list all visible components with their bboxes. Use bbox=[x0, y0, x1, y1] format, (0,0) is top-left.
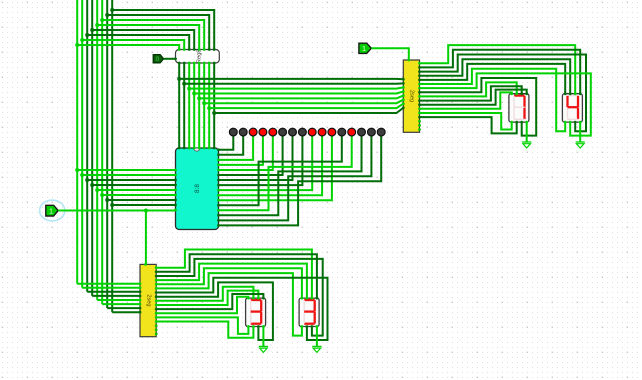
wire V7 to 2seg U4 input 7 bbox=[107, 307, 140, 309]
wire V5 to Reg8 top pin 5 bbox=[97, 25, 199, 50]
wire V1 to Reg8 top pin 1 bbox=[77, 45, 179, 50]
wire U2 out bit15 to LED D16 bbox=[219, 136, 382, 225]
wire U4 out3 to display bbox=[156, 264, 307, 299]
wire U2 out bit11 to LED D12 bbox=[219, 136, 342, 205]
wire to ground bbox=[316, 327, 318, 347]
wire to ground bbox=[579, 122, 581, 142]
wire Reg8 out bit7 to U2 top pin 8 bbox=[213, 63, 215, 148]
wire V2 to U2 left pin 2 bbox=[82, 174, 175, 176]
wire to ground bbox=[526, 122, 528, 142]
wire U2 out bit3 to LED D4 bbox=[219, 136, 263, 165]
wire U4 out11 to display bbox=[156, 297, 248, 313]
wire U4 out6 to display bbox=[156, 278, 327, 340]
wire Reg8 out bit4 to U2 top pin 5 bbox=[198, 63, 200, 148]
LED D7 (off) bbox=[289, 128, 297, 136]
svg-text:2seg: 2seg bbox=[145, 294, 151, 306]
LED D3 (on) bbox=[249, 128, 257, 136]
input pin P1 (bottom left, value 1) with selection halo bbox=[40, 200, 65, 221]
constant 0 bbox=[153, 55, 163, 63]
wire U4 out8 to display bbox=[156, 287, 253, 301]
wire Reg8 out bit6 to U2 top pin 7 bbox=[208, 63, 210, 148]
wire U2 out bit10 to LED D11 bbox=[219, 136, 332, 200]
wire vertical V2 x=82 bbox=[81, 0, 83, 288]
wire V8 to Reg8 top pin 8 bbox=[112, 10, 214, 50]
wire U3 out12 to display bottom bbox=[420, 113, 512, 130]
wire U3 out6 to display bbox=[420, 73, 591, 135]
svg-text:0: 0 bbox=[156, 56, 160, 63]
wire Reg8 out bit4 to 2seg U3 input 5 bbox=[199, 96, 403, 99]
wire vertical V1 x=77 bbox=[76, 0, 78, 284]
wire Reg8 out bit2 to U2 top pin 3 bbox=[188, 63, 190, 148]
svg-text:Reg8: Reg8 bbox=[197, 49, 203, 63]
wire Reg8 out bit2 to 2seg U3 input 3 bbox=[189, 87, 403, 88]
wire Reg8 out bit5 to 2seg U3 input 6 bbox=[204, 100, 403, 104]
wire V6 to Reg8 top pin 6 bbox=[102, 20, 204, 50]
LED D9 (on) bbox=[308, 128, 316, 136]
wire V3 to Reg8 top pin 3 bbox=[87, 35, 189, 50]
multiplier U2 (8x8) bbox=[176, 148, 219, 230]
wire V8 to 2seg U4 input 8 bbox=[112, 311, 140, 313]
wire V8 to U2 left pin 8 bbox=[112, 204, 175, 206]
wire V3 to 2seg U4 input 3 bbox=[87, 291, 140, 293]
wire U2 out bit1 to LED D2 bbox=[219, 136, 244, 155]
wire vertical V6 x=102 bbox=[101, 0, 103, 304]
wire U4 out13 to display bottom bbox=[156, 322, 253, 338]
wire V6 to U2 left pin 6 bbox=[102, 194, 175, 196]
wire V4 to Reg8 top pin 4 bbox=[92, 30, 194, 50]
ground GND under DS1 digit 7 bbox=[522, 141, 531, 143]
wire U3 out0 to display bbox=[420, 45, 576, 94]
LED D15 (off) bbox=[368, 128, 376, 136]
wire Reg8 out bit1 to 2seg U3 input 2 bbox=[184, 82, 403, 84]
wire V4 to 2seg U4 input 4 bbox=[92, 295, 140, 297]
wire V2 to 2seg U4 input 2 bbox=[82, 287, 140, 289]
LED D4 (on) bbox=[259, 128, 267, 136]
wire V1 to 2seg U4 input 1 bbox=[77, 283, 140, 285]
wire U3 out1 to display bbox=[420, 50, 581, 94]
wire Reg8 out bit0 to 2seg U3 input 1 bbox=[179, 78, 403, 80]
wire U3 out8 to display bbox=[420, 82, 517, 96]
wire V6 to 2seg U4 input 6 bbox=[102, 303, 140, 305]
LED D14 (off) bbox=[358, 128, 366, 136]
subcircuit 2seg U4 bbox=[140, 264, 156, 336]
wire Reg8 out bit0 to U2 top pin 1 bbox=[178, 63, 180, 148]
wire vertical V4 x=92 bbox=[91, 0, 93, 296]
wire U2 out bit0 to LED D1 bbox=[219, 136, 234, 150]
svg-text:1: 1 bbox=[362, 44, 366, 53]
LED D2 (off) bbox=[239, 128, 247, 136]
wire U4 out7 to display bbox=[156, 282, 273, 340]
wire Reg8 out bit3 to 2seg U3 input 4 bbox=[194, 92, 403, 94]
wire U3 out5 to display bbox=[420, 69, 566, 132]
wire U4 out0 to display bbox=[156, 250, 312, 299]
LED D5 (on) bbox=[269, 128, 277, 136]
7-segment display DS3 digit 3 bbox=[246, 298, 266, 326]
LED D1 (off) bbox=[229, 128, 237, 136]
wire vertical V8 x=112 bbox=[111, 0, 113, 312]
wire V7 to U2 left pin 7 bbox=[107, 199, 175, 201]
wire U3 out7 to display bbox=[420, 78, 537, 136]
wire U3 out4 to display bbox=[420, 64, 566, 94]
LED D11 (on) bbox=[328, 128, 336, 136]
7-segment display DS2 digit 4 bbox=[562, 94, 582, 122]
wire Reg8 out bit1 to U2 top pin 2 bbox=[183, 63, 185, 148]
register Reg8 U1 bbox=[176, 50, 220, 64]
wire V2 to Reg8 top pin 2 bbox=[82, 40, 184, 50]
wire U2 out bit14 to LED D15 bbox=[219, 136, 372, 220]
wire U3 out10 to display bbox=[420, 90, 527, 105]
wire constant 0 to Reg8 bbox=[164, 58, 176, 60]
wire Reg8 out bit3 to U2 top pin 4 bbox=[193, 63, 195, 148]
wire U2 out bit4 to LED D5 bbox=[219, 136, 273, 170]
wire P2 to 2seg U3 enable bbox=[371, 48, 409, 60]
wire U2 out bit9 to LED D10 bbox=[219, 136, 323, 195]
ground GND under DS3 digit 3 bbox=[259, 345, 268, 347]
ground GND under DS4 digit 3 bbox=[312, 345, 321, 347]
wire Reg8 out bit5 to U2 top pin 6 bbox=[203, 63, 205, 148]
wire V3 to U2 left pin 3 bbox=[87, 179, 175, 181]
wire U2 out bit13 to LED D14 bbox=[219, 136, 362, 215]
wire U3 out9 to display bbox=[420, 86, 522, 100]
wire U2 out bit5 to LED D6 bbox=[219, 136, 283, 175]
wire U4 out1 to display bbox=[156, 254, 317, 298]
wire U4 out12 to display bottom bbox=[156, 317, 248, 334]
7-segment display DS4 digit 3 bbox=[299, 298, 319, 326]
subcircuit 2seg U3 bbox=[403, 60, 419, 132]
ground GND under DS2 digit 4 bbox=[576, 141, 585, 143]
wire Reg8 out bit7 to 2seg U3 input 8 bbox=[214, 108, 403, 113]
wire U4 out2 to display bbox=[156, 259, 323, 336]
wire V5 to U2 left pin 5 bbox=[97, 189, 175, 191]
wire U2 out bit6 to LED D7 bbox=[219, 136, 293, 180]
svg-text:8:8: 8:8 bbox=[194, 184, 201, 193]
wire U2 out bit12 to LED D13 bbox=[219, 136, 352, 210]
wire U3 out11 to display bbox=[420, 92, 512, 108]
input pin P2 (top right, value 1) bbox=[359, 43, 371, 53]
wire V1 to U2 left pin 1 bbox=[77, 169, 175, 171]
wire U2 out bit8 to LED D9 bbox=[219, 136, 313, 190]
wire U4 out9 to display bbox=[156, 291, 258, 305]
LED D8 (off) bbox=[299, 128, 307, 136]
svg-text:1: 1 bbox=[49, 206, 53, 215]
wire U4 out5 to display bbox=[156, 273, 302, 336]
7-segment display DS1 digit 7 bbox=[509, 94, 529, 122]
wire U2 out bit2 to LED D3 bbox=[219, 136, 254, 160]
LED D16 (off) bbox=[377, 128, 385, 136]
wire U4 out10 to display bbox=[156, 294, 263, 309]
wire vertical V7 x=107 bbox=[106, 0, 108, 308]
wire vertical V5 x=97 bbox=[96, 0, 98, 300]
wire U3 out2 to display bbox=[420, 55, 587, 132]
wire V4 to U2 left pin 4 bbox=[92, 184, 175, 186]
wire to ground bbox=[262, 327, 264, 347]
LED D10 (on) bbox=[318, 128, 326, 136]
wire U3 out3 to display bbox=[420, 59, 571, 93]
svg-text:2seg: 2seg bbox=[409, 90, 415, 102]
wire V5 to 2seg U4 input 5 bbox=[97, 299, 140, 301]
wire U4 out4 to display bbox=[156, 268, 302, 298]
LED D13 (on) bbox=[348, 128, 356, 136]
LED D12 (off) bbox=[338, 128, 346, 136]
wire U3 out13 to display bottom bbox=[420, 117, 517, 133]
wire U2 out bit7 to LED D8 bbox=[219, 136, 303, 185]
wire Reg8 out bit6 to 2seg U3 input 7 bbox=[209, 104, 403, 108]
LED D6 (off) bbox=[279, 128, 287, 136]
wire V7 to Reg8 top pin 7 bbox=[107, 15, 209, 50]
wire P1 to U2 enable and 2seg U4 enable bbox=[58, 210, 175, 212]
wire vertical V3 x=87 bbox=[86, 0, 88, 292]
